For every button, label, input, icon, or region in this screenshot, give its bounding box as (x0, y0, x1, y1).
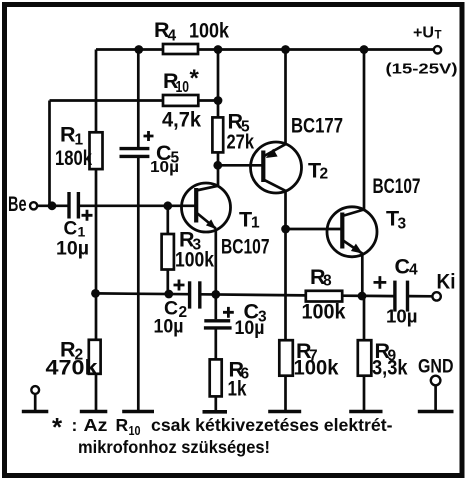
svg-text::: : (72, 415, 78, 435)
svg-text:4: 4 (168, 28, 177, 45)
svg-text:180k: 180k (55, 146, 92, 170)
svg-text:100k: 100k (294, 356, 339, 380)
svg-text:1k: 1k (228, 377, 247, 401)
svg-text:10µ: 10µ (56, 239, 89, 260)
svg-text:1: 1 (78, 224, 86, 240)
svg-text:100k: 100k (189, 19, 229, 43)
svg-text:mikrofonhoz szükséges!: mikrofonhoz szükséges! (78, 437, 270, 457)
svg-text:BC107: BC107 (221, 235, 270, 259)
svg-text:*: * (190, 65, 200, 92)
svg-text:10: 10 (129, 424, 141, 438)
svg-text:csak kétkivezetéses elektrét-: csak kétkivezetéses elektrét- (151, 415, 393, 435)
svg-text:4: 4 (409, 262, 418, 279)
svg-text:10µ: 10µ (150, 159, 179, 176)
svg-text:27k: 27k (227, 132, 255, 154)
svg-text:R: R (116, 415, 129, 435)
svg-text:GND: GND (418, 356, 454, 378)
svg-text:BC107: BC107 (373, 174, 421, 198)
svg-text:10µ: 10µ (235, 318, 265, 339)
svg-text:10µ: 10µ (154, 317, 184, 338)
svg-text:3: 3 (398, 216, 407, 233)
svg-text:Az: Az (84, 415, 108, 435)
svg-text:100k: 100k (175, 248, 214, 272)
svg-text:8: 8 (323, 273, 332, 290)
svg-text:2: 2 (320, 166, 329, 183)
svg-text:3,3k: 3,3k (372, 356, 408, 380)
svg-text:Be: Be (8, 192, 27, 216)
svg-text:470k: 470k (46, 356, 98, 380)
svg-text:T: T (435, 30, 442, 42)
svg-text:C: C (395, 255, 411, 279)
svg-text:+U: +U (413, 25, 434, 42)
svg-text:100k: 100k (302, 300, 346, 324)
svg-text:Ki: Ki (437, 270, 456, 294)
svg-text:4,7k: 4,7k (162, 108, 201, 132)
svg-text:(15-25V): (15-25V) (386, 61, 458, 78)
svg-text:1: 1 (251, 215, 260, 232)
svg-text:BC177: BC177 (291, 114, 343, 138)
svg-text:10µ: 10µ (386, 307, 418, 327)
svg-text:C: C (64, 219, 78, 240)
svg-text:*: * (52, 412, 63, 442)
svg-text:10: 10 (176, 79, 190, 96)
